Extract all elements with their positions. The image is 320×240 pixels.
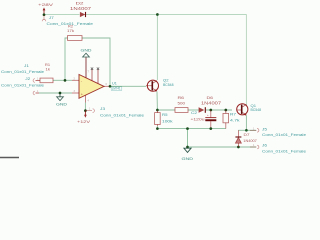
pin 2 <box>72 79 79 81</box>
connector J6 <box>250 143 307 154</box>
svg-text:+: + <box>207 113 209 117</box>
junction inverting input <box>64 79 67 82</box>
connector J3 <box>85 106 144 117</box>
junction Q1 emitter <box>245 129 248 132</box>
junction output <box>109 85 112 88</box>
capacitor C2 <box>191 110 217 129</box>
pin 6 output <box>104 85 110 87</box>
ground (op-amp V+) <box>81 48 92 78</box>
wire top rail left <box>44 14 80 16</box>
connector J7 <box>42 15 94 26</box>
svg-text:+28V: +28V <box>38 2 54 7</box>
diode D2 <box>70 1 92 18</box>
svg-text:C2: C2 <box>191 110 198 115</box>
connector J2 <box>1 76 45 95</box>
wire R6 to D6 <box>188 109 199 111</box>
wire D6 to Q1 base <box>206 109 232 111</box>
junction R5 corner <box>156 127 159 130</box>
svg-text:GND: GND <box>81 48 92 53</box>
svg-text:R5: R5 <box>162 112 168 117</box>
power +28V <box>38 2 54 15</box>
connector J1 <box>1 63 45 82</box>
diode D7 <box>235 130 257 147</box>
junction J3/+12V <box>84 109 87 112</box>
svg-text:D7: D7 <box>244 132 250 137</box>
wire Q2 emitter down <box>156 92 158 111</box>
svg-text:+12V: +12V <box>77 119 90 124</box>
svg-text:Conn_01x01_Female: Conn_01x01_Female <box>1 83 45 88</box>
Q2 base pin <box>146 85 152 87</box>
wire Q2 collector vertical <box>156 15 158 81</box>
svg-text:Conn_01x01_Female: Conn_01x01_Female <box>1 69 45 74</box>
junction top rail <box>156 13 159 16</box>
wire J2 to pin 3 <box>39 92 72 94</box>
svg-text:LM741: LM741 <box>112 87 121 91</box>
wire top rail mid <box>86 14 157 16</box>
wire pin4 to junction <box>84 103 86 111</box>
resistor R5 <box>155 110 173 126</box>
wire Q1 emitter down <box>245 115 247 130</box>
wire emitter to D7 <box>238 129 246 131</box>
svg-text:1N4007: 1N4007 <box>70 6 92 11</box>
diode D6 <box>199 95 222 113</box>
resistor R2 <box>67 24 82 41</box>
power +12V (op-amp) <box>77 111 90 125</box>
junction bottom rail <box>186 146 189 149</box>
pin 4 down <box>84 95 86 102</box>
junction R7 tap <box>224 109 227 112</box>
junction GND mid rail <box>186 127 189 130</box>
wire R5 to mid rail <box>157 126 225 129</box>
svg-text:R7: R7 <box>230 111 237 116</box>
wire R1 to junction <box>53 79 72 81</box>
junction at +28V/J7 <box>43 13 46 16</box>
sheet frame fragment <box>0 157 19 159</box>
svg-text:U1: U1 <box>112 81 117 85</box>
svg-text:BC548: BC548 <box>163 83 174 87</box>
ground (left) <box>56 93 67 107</box>
wire rail y110 <box>157 109 175 111</box>
junction D7 bottom <box>237 146 240 149</box>
svg-text:500: 500 <box>178 100 186 105</box>
svg-text:1k: 1k <box>46 67 51 72</box>
wire feedback top right <box>82 38 110 86</box>
svg-text:17k: 17k <box>67 28 74 33</box>
no-connect pin 1 <box>91 68 93 81</box>
ground drop wire <box>187 129 189 147</box>
junction GND tap <box>59 92 62 95</box>
svg-text:Q2: Q2 <box>163 78 169 82</box>
junction C2 tap <box>209 109 212 112</box>
connector J5 <box>250 127 307 138</box>
svg-text:4.7k: 4.7k <box>230 118 240 123</box>
wire right vertical to Q1 collector <box>245 15 247 106</box>
svg-text:1N4007: 1N4007 <box>243 138 257 143</box>
svg-text:GND: GND <box>56 102 67 107</box>
no-connect pin 5 <box>97 68 99 84</box>
junction C2 bottom <box>209 127 212 130</box>
svg-text:Conn_01x01_Female: Conn_01x01_Female <box>100 112 145 117</box>
svg-text:Conn_01x01_Female: Conn_01x01_Female <box>262 132 307 137</box>
wire feedback top left <box>65 38 68 80</box>
transistor Q1 <box>237 104 261 116</box>
svg-text:GND: GND <box>182 156 194 161</box>
wire emitter to J5 <box>246 129 256 131</box>
wire bottom rail <box>188 146 257 148</box>
junction emitter/R5 <box>156 109 159 112</box>
resistor R1 <box>40 62 53 83</box>
resistor R7 <box>223 110 240 129</box>
svg-text:1N4007: 1N4007 <box>201 100 222 105</box>
resistor R6 <box>175 95 188 112</box>
transistor Q2 <box>147 78 173 92</box>
pin 3 <box>72 92 79 94</box>
svg-text:BC548: BC548 <box>251 108 262 112</box>
svg-text:100k: 100k <box>162 118 173 123</box>
svg-text:Conn_01x01_Female: Conn_01x01_Female <box>262 149 307 154</box>
svg-text:+120u: +120u <box>191 116 205 121</box>
svg-text:D2: D2 <box>76 1 85 6</box>
op-amp U1 <box>74 71 122 103</box>
wire top rail right <box>157 14 246 16</box>
ground (bottom) <box>182 148 194 161</box>
wire output to Q2 base <box>110 85 146 87</box>
